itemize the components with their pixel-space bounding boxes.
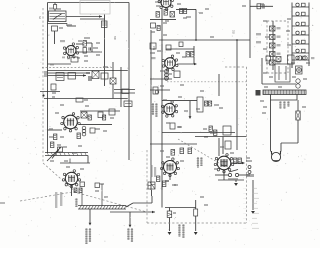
svg-text:··—: ··— (243, 203, 246, 205)
svg-text:··—: ··— (243, 208, 246, 210)
svg-text:··—: ··— (243, 228, 246, 230)
svg-text:456: 456 (152, 46, 155, 51)
svg-text:··—: ··— (243, 213, 246, 215)
svg-text:··—: ··— (243, 188, 246, 190)
svg-text:··—: ··— (243, 198, 246, 200)
svg-text:··—: ··— (243, 193, 246, 195)
svg-text:··—: ··— (243, 218, 246, 220)
svg-text:··—: ··— (243, 223, 246, 225)
